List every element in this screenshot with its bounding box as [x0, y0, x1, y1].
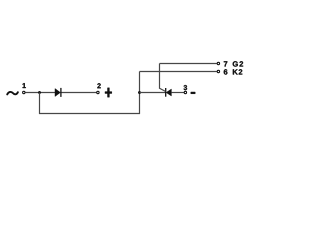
net label G2	[233, 61, 243, 66]
wire junction B to thyristor	[140, 92, 166, 94]
node junction B	[138, 91, 141, 94]
AC symbol ~ at terminal 1	[7, 92, 18, 95]
net label K2	[233, 69, 242, 74]
thyristor V1 triangle	[166, 89, 171, 96]
wire bottom run	[39, 113, 140, 115]
terminal 1 circle	[23, 91, 25, 93]
terminal 2 circle	[97, 91, 99, 93]
terminal 7 circle	[217, 62, 219, 64]
thyristor gate lead	[160, 64, 166, 92]
wire G2 horizontal	[160, 63, 217, 65]
terminal 2 label	[97, 83, 100, 88]
wire diode to terminal 2	[62, 92, 97, 94]
wire thyristor to terminal 3	[171, 92, 184, 94]
terminal 6 circle	[217, 70, 219, 72]
terminal 7 label	[224, 61, 228, 66]
minus sign	[191, 92, 195, 94]
thyristor V1 cathode bar	[165, 88, 167, 97]
wire right riser K2 branch	[139, 72, 141, 114]
diode D1 cathode bar	[60, 88, 62, 97]
terminal 3 circle	[184, 91, 186, 93]
wire terminal1 to diode	[25, 92, 55, 94]
terminal 6 label	[224, 69, 228, 74]
terminal 1 label	[23, 83, 26, 88]
wire left drop from junction A	[39, 93, 41, 114]
diode D1 triangle	[55, 89, 60, 97]
wire K2 horizontal	[140, 71, 217, 73]
plus sign	[105, 88, 112, 97]
node junction A	[38, 91, 41, 94]
terminal 3 label	[184, 85, 187, 90]
